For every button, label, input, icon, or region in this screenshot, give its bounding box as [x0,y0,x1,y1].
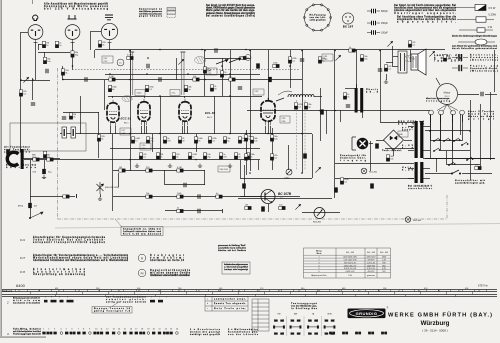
motor note [468,110,495,121]
svg-text:entspannt transportstilbild an: entspannt transportstilbild angaben [33,241,106,244]
wire [38,44,40,50]
wire [334,50,336,198]
wire [302,50,304,173]
boxed label C4 [102,56,113,63]
resistor R18 [360,55,363,61]
wire [62,66,64,80]
capacitor C2 [46,69,48,73]
resistor R3 [98,41,101,47]
svg-text:14: 14 [118,329,120,331]
tuner enclosure box [10,123,86,151]
svg-text:11: 11 [101,329,103,331]
svg-text:0,5M: 0,5M [177,167,182,169]
row2 right table [205,297,248,312]
capacitor C11 [256,63,260,68]
right small note [218,244,247,252]
resistor R71 [244,135,247,141]
transistor Q1 BC107B [255,190,275,204]
dial lamp 2 [405,217,411,223]
svg-text:BC 107B: BC 107B [278,192,292,196]
wire bridge bottom [393,150,395,156]
legend elko text [470,54,498,62]
wire y158b [423,158,495,160]
mains text [408,186,433,190]
callout leader [115,219,122,227]
wire to choke [276,98,284,101]
junction [319,110,321,112]
capacitor C71 [370,183,374,188]
chassis dash-dot boundary right [446,195,448,219]
junction [249,172,251,174]
junction [379,50,381,52]
motor M1 [437,84,458,105]
transformer label [366,88,379,94]
wire [164,170,166,185]
wire [356,50,358,88]
boxed label C24 [206,68,217,75]
wire y80 left [20,80,50,82]
end bar [76,194,78,198]
separator line [55,224,500,229]
svg-text:Rö2-KA: Rö2-KA [413,219,421,222]
svg-text:1M: 1M [245,205,248,207]
svg-text:200V 96V: 200V 96V [367,265,376,267]
scan bottom-left edge [0,336,46,338]
capacitor C75 [303,153,307,158]
capacitor C36 [62,117,66,119]
resistor R50 [188,153,191,159]
t2 r3 [214,307,246,310]
wire socket1 down [35,42,37,80]
wire [268,50,270,100]
svg-text:4: 4 [60,329,61,331]
svg-text:2n: 2n [46,45,48,47]
wire [430,114,432,158]
svg-text:5: 5 [319,268,320,270]
svg-text:1,2V 1,05V 0,9V: 1,2V 1,05V 0,9V [343,260,357,262]
wire [214,96,216,134]
psu note [426,97,451,102]
svg-text:220V~: 220V~ [402,129,414,131]
svg-text:20: 20 [153,329,155,331]
wire [204,170,206,185]
main B+ bus [95,49,445,51]
svg-text:ECC 83: ECC 83 [121,117,132,121]
wire socket1 left [21,32,28,34]
svg-text:(R33): (R33) [18,206,23,208]
svg-text:(Wickelkond.): (Wickelkond.) [470,71,498,73]
svg-text:GRUNDIG: GRUNDIG [356,311,378,316]
chassis dash-dot boundary vertical [57,68,59,219]
tube Rö1 ECC83 [107,100,119,127]
resistor R2 [71,51,74,57]
motor matrix wire [440,115,442,151]
wire [272,128,274,170]
capacitor C motor [481,92,483,96]
svg-text:2: 2 [319,260,320,262]
tube pin wire [146,126,148,134]
resistor R29 [229,78,235,81]
resistor R4 [127,56,133,59]
junction [301,133,303,135]
boxed label C14a [135,90,145,96]
motor wire [436,78,440,85]
transistor case label [343,27,354,29]
wire [222,58,224,96]
tuning link dashed line b [304,100,306,170]
switch contact [433,138,440,142]
resistor RB1 [245,206,251,209]
bottom-left mini table [252,299,269,331]
motor pin circles [429,110,434,115]
tube Rö1b [138,99,150,126]
heater wire y163 [335,163,414,165]
boxed label C7a [170,90,180,96]
socket Bu3 phono [101,23,117,42]
capacitor C41 [198,194,200,198]
wire [38,44,42,46]
wire [44,52,46,57]
junction [187,73,189,75]
svg-text:1,5V 1,3V: 1,5V 1,3V [367,262,376,264]
resistor tone [216,195,222,198]
tube top wire [112,96,114,98]
anode bus y110 [247,110,430,112]
row3 legend a [190,328,221,336]
bezugs tonsatz box [92,307,132,314]
junction [204,50,206,52]
svg-text:A: A [247,56,249,60]
svg-text:Rö2 - GW: Rö2 - GW [367,252,375,254]
grid arrow to output tube [278,91,292,95]
ground [168,164,172,168]
t2 r1 [214,297,246,300]
svg-text:R 21: R 21 [20,239,26,242]
svg-text:seite gesehen: seite gesehen [310,18,327,21]
resistor R43 [131,137,134,143]
wire [104,80,106,110]
junction [334,50,336,52]
motor matrix wire [452,115,454,165]
adjuster arrow R33 [29,212,43,219]
change-mark hatched oval 3 [122,96,133,102]
tube top wire [184,96,186,98]
wire [20,40,22,152]
svg-text:1: 1 [319,257,320,259]
trimmer C1 [23,77,28,82]
resistor R45 [163,137,166,143]
svg-text:Pfl: Pfl [141,273,144,276]
svg-text:250pF: 250pF [381,22,388,25]
wire [230,50,232,134]
svg-text:13: 13 [113,329,115,331]
tube pin wire [270,126,272,134]
svg-text:2n: 2n [447,59,449,61]
capacitor C42 [198,209,200,213]
resistor R5 [55,41,58,47]
motor matrix wire [462,115,464,141]
svg-text:Der Empf. ist mit 6V/12V Netz: Der Empf. ist mit 6V/12V Netz Spg ausge- [206,4,255,7]
capacitor C35 [31,103,35,105]
svg-text:®: ® [387,307,389,310]
resistor R51 [139,153,142,159]
wire [144,122,146,134]
boxed note right text [224,263,249,271]
svg-text:210V 0,9V 0,7V: 210V 0,9V 0,7V [344,265,357,267]
wire [130,50,132,171]
svg-text:Antenne abgeschaltet und über: Antenne abgeschaltet und über den eingeb… [394,9,457,12]
trimmer C21 [429,51,434,56]
pickup symbol above socket Bu3 [105,15,113,20]
filter choke L1 [288,94,314,97]
resistor tone [177,169,183,172]
bus wire y79 [63,79,302,81]
tube pin wire [115,126,117,134]
row2 mid text [106,296,147,304]
svg-text:220V 215V: 220V 215V [367,257,377,259]
header paragraph [206,4,256,17]
column separator [303,316,305,336]
resistor R73 [270,135,273,141]
speaker [411,49,426,75]
wire [240,160,242,178]
capacitor C30 [268,77,272,82]
power transformer Tr1 lower [415,162,424,183]
resistor speaker [384,65,387,71]
junction [159,49,161,51]
wire socket3 left [90,31,101,33]
junction [204,79,206,81]
meter wire y212 [302,212,340,214]
junction [334,110,336,112]
wire [386,62,393,64]
bus wire y58 [205,58,250,60]
tone box wire y170 [113,170,205,172]
resistor R45 [223,137,226,143]
switch contact [433,148,440,152]
wire [98,112,100,158]
svg-text:6400: 6400 [16,283,26,288]
wire y112 [63,112,99,114]
svg-text:anschluss: anschluss [4,152,31,154]
svg-text:Würzburg: Würzburg [421,320,450,327]
legend resistor 1W [459,25,493,32]
junction [147,57,149,59]
wire y158 [425,158,495,160]
resistor R42 [250,137,253,143]
change-mark hatched oval 1 [195,56,206,63]
legend potentiometer 0.5W [455,5,496,11]
svg-text:17: 17 [135,329,137,331]
ground C66 [42,175,46,179]
svg-text:10n: 10n [390,159,393,161]
legend note text [139,9,163,18]
junction [267,133,269,135]
svg-text:Rö2-KA: Rö2-KA [313,221,321,224]
tube top wire [144,96,146,98]
svg-text:5n: 5n [216,193,218,195]
output transformer to speaker [398,51,407,73]
svg-text:Anschluss einer Aussenantenne: Anschluss einer Aussenantenne wird die e… [394,7,457,10]
circled R symbol [138,254,146,262]
wire y148 [385,148,414,150]
svg-text:4: 4 [319,265,320,267]
svg-text:rüstet. UKW-Bereich gegen Chas: rüstet. UKW-Bereich gegen Chassis gemess… [206,7,256,10]
wire [312,134,314,178]
bus wire y133 [60,133,312,135]
tube pin wire [110,126,112,134]
mains switch text [455,179,485,184]
tone box wire y211 [165,210,222,212]
volume potentiometer [286,169,292,175]
legend capacitor 100pF [367,30,380,34]
capacitor C25 [85,77,87,81]
junction [20,79,22,81]
junction [146,73,148,75]
capacitor C70 [334,187,338,192]
resistor R13 [288,57,291,63]
svg-text:Spannungen und Werte gemessen: Spannungen und Werte gemessen [44,5,109,8]
boxed label near choke [253,89,264,95]
svg-text:12: 12 [106,329,108,331]
ground EM [98,197,102,201]
svg-text:24: 24 [176,329,178,331]
circled node A [245,55,251,61]
output transformer Tr2 [355,88,364,113]
trimmer C16 [335,55,340,60]
svg-text:6: 6 [319,271,320,273]
resistor R51 [219,153,222,159]
capacitor C43 [242,183,246,188]
tube top wire [268,98,270,100]
row3 contact marks [43,332,179,335]
wire [393,66,398,68]
junction [129,79,131,81]
svg-text:C14a: C14a [137,93,143,95]
wire [494,50,496,92]
wire bridge left [376,140,384,142]
junction [32,79,34,81]
ground [135,164,139,168]
junction [129,159,131,161]
row2 contacts [44,300,74,303]
boxed label under tube1 [120,128,131,135]
svg-text:Durch eine Änderung bedingte A: Durch eine Änderung bedingte Abweichunge… [452,35,498,38]
wire [485,94,497,96]
wire [184,122,186,134]
svg-text:18: 18 [141,329,143,331]
note R27 text [33,254,129,262]
resistor R74 [270,154,273,160]
bus wire y74 [105,74,260,76]
header note text [44,3,109,11]
svg-text:Regelschaltkontakte: Regelschaltkontakte [150,269,191,272]
legend capacitor 500pF [367,9,380,13]
junction [249,133,251,135]
resistor tone R62 [177,195,183,198]
trimmer C19 [387,41,392,46]
resistor R61 [304,103,307,109]
junction [301,50,303,52]
circled R text [150,255,185,262]
junction [221,65,223,67]
wire [94,50,96,58]
capacitor C8 [215,48,217,52]
IF core adjuster a [129,52,134,95]
bezugs text [94,307,131,313]
svg-text:6: 6 [72,329,73,331]
svg-text:Rö 1: Rö 1 [124,123,129,125]
motor pin wire [452,115,454,122]
wire cap drop [44,160,46,169]
legend box [167,8,176,18]
svg-text:Zusatz Ton abgesch.: Zusatz Ton abgesch. [214,302,246,305]
resistor R87 [63,195,69,198]
GRUNDIG logo [348,307,389,319]
wire [370,141,372,171]
junction [229,73,231,75]
wire trafo [423,168,430,170]
bus wire y149 [110,148,260,150]
AVC dashed bus y66 [72,69,300,71]
resistor R55 [203,153,206,159]
wire socket3 down [109,43,111,50]
wire pickup [23,158,60,160]
svg-text:Lautsprecher Ltspr.: Lautsprecher Ltspr. [214,297,246,300]
resistor R48 [146,137,149,143]
svg-text:mit allen unserer Geräte: mit allen unserer Geräte [150,272,191,275]
svg-text:7: 7 [78,329,79,331]
svg-text:BC 107: BC 107 [343,27,354,29]
svg-text:Motor: Motor [444,91,451,95]
antenna top mark [32,0,34,4]
junction [201,49,203,51]
wire [196,134,198,152]
tube pin wire [182,126,184,134]
svg-text:10n: 10n [274,139,277,141]
trafo prim text [402,126,414,131]
junction [249,159,251,161]
junction [129,133,131,135]
wire [176,58,178,80]
motor matrix wire [436,158,438,172]
resistor R31 [210,85,213,91]
wire trafo [408,168,414,170]
ground [198,164,202,168]
svg-text:Netz Trafo prim.: Netz Trafo prim. [214,307,246,310]
svg-text:zeitig auf ausser betrieb: zeitig auf ausser betrieb [106,301,147,304]
svg-text:1n: 1n [192,157,194,159]
motor pin wire [440,115,442,122]
svg-text:10n: 10n [364,59,367,61]
svg-text:Rö1 - GW: Rö1 - GW [346,252,354,254]
svg-text:Abstimmen unterschiedlich eins: Abstimmen unterschiedlich einstellbar [150,274,190,277]
svg-text:wechseln 2 kontakte: wechseln 2 kontakte [13,302,41,305]
wire [392,57,394,67]
capacitor C79 [375,143,379,148]
svg-text:Der Empf. ist mit Ferrit-Anten: Der Empf. ist mit Ferrit-Antenne ausgerü… [394,4,456,7]
wire transistor down [268,204,270,212]
socket note [310,15,327,22]
svg-text:2n: 2n [248,158,250,160]
resistor R38b [43,151,46,157]
variable capacitor EM4/20 [97,182,104,194]
legend oval note [452,35,498,38]
resistor tone [146,195,152,198]
svg-text:Lautspr. wird angezeigt: Lautspr. wird angezeigt [224,268,248,271]
svg-text:7 kΩ: 7 kΩ [348,275,352,277]
svg-text:1 MΩ: 1 MΩ [284,178,289,180]
